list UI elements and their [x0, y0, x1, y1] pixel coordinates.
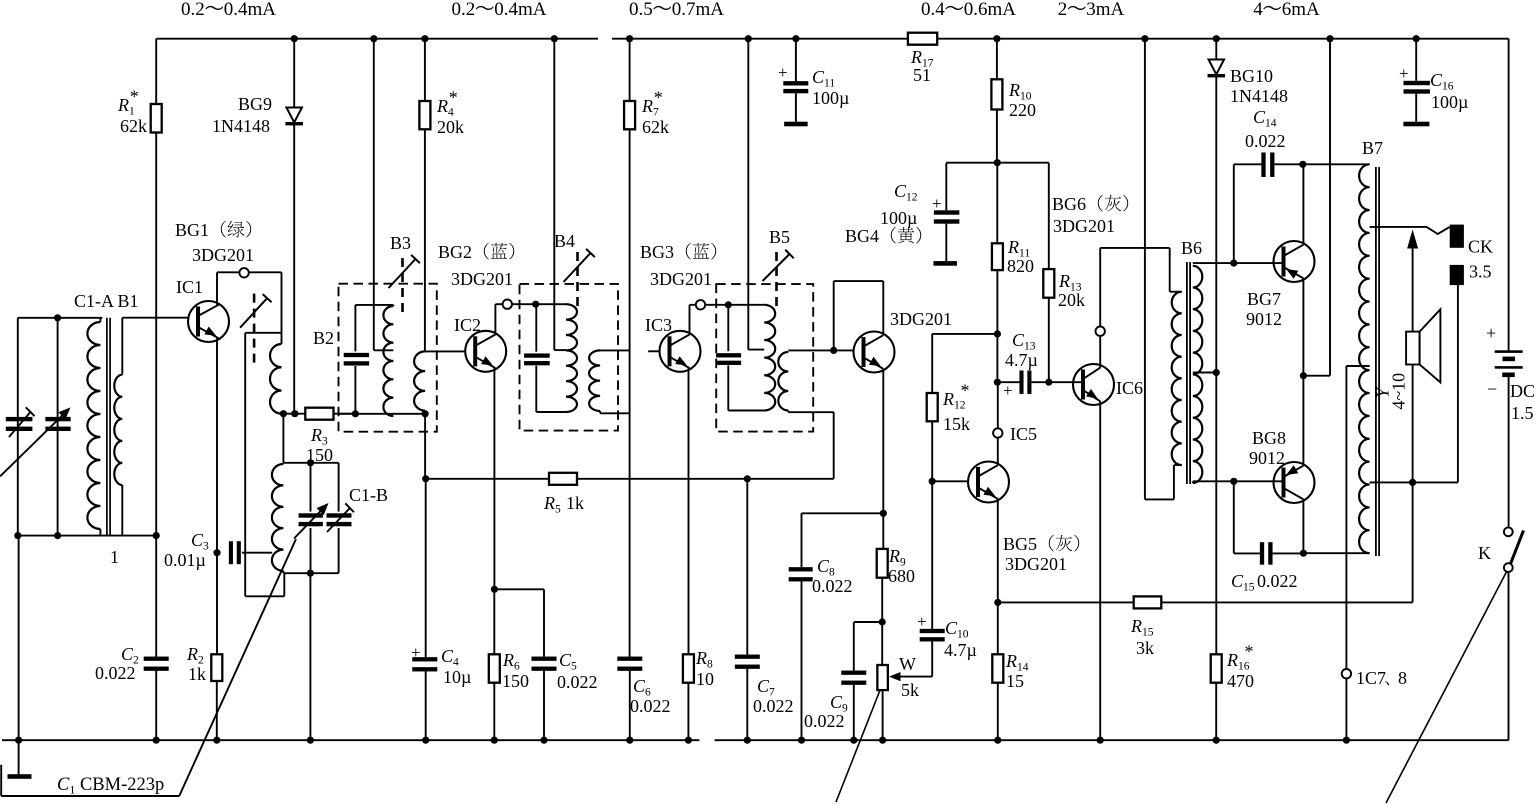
node R10/C12/R13	[994, 159, 1001, 166]
wire B3 tank bottom	[339, 413, 426, 415]
resistor R5 1k	[549, 473, 577, 485]
svg-text:IC3: IC3	[645, 315, 672, 335]
wire BG7 collector riser	[1302, 164, 1304, 244]
svg-text:0.6mA: 0.6mA	[964, 0, 1017, 20]
resistor R4 20k	[424, 39, 426, 101]
potentiometer W 5k	[881, 622, 883, 665]
svg-text:680: 680	[888, 566, 915, 586]
svg-text:10µ: 10µ	[443, 667, 471, 687]
resistor R12 15k	[931, 334, 933, 393]
resistor R2 1k	[216, 553, 218, 655]
svg-text:4.7µ: 4.7µ	[1005, 350, 1038, 370]
node C13 left	[994, 379, 1001, 386]
svg-text:3k: 3k	[1136, 638, 1154, 658]
speaker Y 4~10	[1406, 332, 1420, 365]
resistor R3 150	[305, 408, 333, 420]
transformer B4 secondary coil	[589, 350, 600, 411]
resistor R11 820	[996, 163, 998, 244]
B5 tank capacitor	[727, 305, 729, 351]
wire switch to ground rail	[1508, 572, 1510, 740]
node antenna top junction	[54, 314, 61, 321]
ring IC3 measuring point	[696, 300, 705, 309]
svg-text:0.022: 0.022	[804, 711, 845, 731]
svg-text:8: 8	[1398, 668, 1407, 688]
node R11/R12	[994, 330, 1001, 337]
node BG5 base	[929, 478, 936, 485]
trimmer core arrow B5	[775, 252, 778, 312]
svg-text:B2: B2	[313, 328, 334, 348]
svg-text:IC1: IC1	[176, 277, 203, 297]
svg-text:IC2: IC2	[454, 315, 481, 335]
ring 1C7,8 measuring point	[1342, 669, 1351, 678]
svg-text:IC5: IC5	[1010, 424, 1037, 444]
wire BG2 collector riser	[494, 304, 496, 334]
svg-text:0.022: 0.022	[630, 696, 671, 716]
svg-text:3DG201: 3DG201	[192, 245, 254, 265]
svg-text:1N4148: 1N4148	[212, 116, 270, 136]
resistor R13 20k	[997, 162, 1049, 164]
svg-text:2: 2	[1058, 0, 1068, 20]
ring IC1 measuring point	[239, 268, 248, 277]
B3 tank capacitor	[354, 305, 356, 352]
capacitor C10 4.7u	[931, 481, 933, 629]
wire BG4 emitter	[882, 369, 884, 514]
transistor BG4 3DG201 detector	[854, 332, 895, 373]
svg-text:20k: 20k	[1058, 290, 1085, 310]
svg-text:4~10: 4~10	[1389, 373, 1409, 410]
svg-text:0.01µ: 0.01µ	[164, 550, 206, 570]
oscillator coil B2 secondary	[282, 414, 284, 463]
wire ground stub left	[18, 536, 20, 741]
svg-text:DC: DC	[1510, 381, 1535, 401]
transformer B6 core	[1186, 262, 1188, 484]
svg-text:B3: B3	[390, 233, 411, 253]
node BG5 emitter junction	[994, 599, 1001, 606]
capacitor C11 100u electrolytic	[795, 39, 797, 81]
node antenna bottom left	[14, 532, 21, 539]
variable capacitor C1-B left unit	[310, 463, 312, 512]
wire emitters to supply	[1303, 375, 1330, 377]
svg-text:BG9: BG9	[238, 94, 272, 114]
wire bottom ground rail	[2, 739, 699, 741]
wire BG5 emitter	[997, 499, 999, 603]
transistor BG8 9012	[1274, 462, 1315, 503]
wire BG3 collector riser	[689, 305, 691, 335]
wire B7 tap to IC7-8 ring	[1346, 365, 1369, 367]
node C8 / R9	[880, 510, 887, 517]
svg-text:15: 15	[1006, 671, 1024, 691]
svg-text:+: +	[1003, 381, 1013, 400]
svg-text:0.022: 0.022	[753, 696, 794, 716]
node BG8 collector / C15	[1300, 550, 1307, 557]
transformer B1 core	[106, 318, 108, 536]
ground symbol bottom-left	[18, 740, 20, 774]
svg-text:BG7: BG7	[1247, 289, 1281, 309]
svg-text:−: −	[1487, 379, 1497, 399]
wire C1-A right unit vertical	[57, 318, 59, 536]
svg-text:BG8: BG8	[1252, 428, 1286, 448]
capacitor C12 100u electrolytic	[946, 162, 997, 164]
svg-text:100µ: 100µ	[812, 88, 849, 108]
node B3 secondary bottom	[422, 410, 429, 417]
svg-text:1.5: 1.5	[1511, 403, 1534, 423]
IF transformer B4 dashed box	[520, 284, 619, 431]
trimmer core arrow B4	[576, 252, 579, 312]
wire BG6 emitter to ground	[1099, 401, 1101, 740]
node BG4 base	[830, 347, 837, 354]
transistor BG5 (IC5) 3DG201	[932, 480, 968, 482]
capacitor C13 4.7u coupling	[997, 381, 1019, 383]
svg-text:4.7µ: 4.7µ	[944, 640, 977, 660]
transformer B6 primary coil	[1169, 248, 1171, 292]
wire B3 supply tap	[373, 39, 375, 351]
wire B7 tap to jack CK with break notch	[1370, 227, 1450, 234]
resistor R10 220	[996, 39, 998, 80]
svg-text:+: +	[932, 194, 942, 213]
IF transformer B3 dashed box	[339, 284, 437, 432]
pointer line to C1-A	[0, 412, 66, 477]
transformer B3 secondary coil	[414, 351, 425, 410]
node C9 branch	[879, 618, 886, 625]
svg-text:BG1: BG1	[175, 220, 209, 240]
oscillator B2 trimmer core arrow	[253, 294, 256, 365]
svg-text:B6: B6	[1181, 238, 1202, 258]
battery DC 1.5V	[1508, 39, 1510, 352]
node BG2 emitter R6/C5	[491, 586, 498, 593]
wire osc shield loop	[245, 332, 281, 334]
svg-text:3.5: 3.5	[1469, 262, 1492, 282]
transistor BG7 9012	[1274, 241, 1315, 282]
transistor BG3 (IC3) 3DG201	[648, 350, 659, 352]
svg-text:0.4mA: 0.4mA	[224, 0, 277, 20]
wire AGC line with R5	[424, 414, 426, 479]
svg-text:9012: 9012	[1249, 448, 1285, 468]
resistor R9 680	[882, 513, 884, 549]
svg-text:W: W	[899, 654, 916, 674]
capacitor C14 0.022	[1233, 164, 1235, 263]
svg-text:1N4148: 1N4148	[1230, 86, 1288, 106]
svg-text:0.2: 0.2	[181, 0, 205, 20]
wire BG8 emitter riser	[1302, 376, 1304, 466]
node antenna bottom right	[153, 532, 160, 539]
wire B6 center tap	[1193, 372, 1217, 374]
capacitor C6 0.022	[617, 657, 642, 661]
wire B6 primary bottom return	[1174, 464, 1182, 466]
pointer line K ganged	[1386, 571, 1507, 803]
wire B5 secondary bottom to AGC	[787, 411, 789, 413]
pointer arrow into C1-B	[294, 507, 325, 539]
switch K	[1504, 527, 1513, 536]
wire B5 supply tap	[747, 39, 749, 350]
svg-text:BG4: BG4	[845, 226, 879, 246]
capacitor C9 0.022	[854, 621, 882, 623]
pointer line W ganged	[836, 691, 880, 803]
variable capacitor C1-B right unit	[311, 462, 339, 464]
svg-text:3DG201: 3DG201	[1053, 216, 1115, 236]
wire speaker node to feedback	[1412, 482, 1414, 602]
svg-text:1k: 1k	[188, 664, 206, 684]
node osc tank bottom	[307, 570, 314, 577]
svg-text:0.022: 0.022	[1257, 571, 1298, 591]
transformer B4 primary coil	[566, 304, 577, 412]
node emitters junction	[1300, 372, 1307, 379]
node osc tank top	[307, 459, 314, 466]
svg-text:150: 150	[502, 671, 529, 691]
svg-text:B5: B5	[769, 227, 790, 247]
IF transformer B5 dashed box	[716, 284, 813, 432]
svg-text:100µ: 100µ	[1431, 92, 1468, 112]
svg-text:0.5: 0.5	[629, 0, 653, 20]
svg-text:B7: B7	[1362, 138, 1383, 158]
svg-text:3DG201: 3DG201	[890, 309, 952, 329]
svg-text:IC6: IC6	[1116, 378, 1143, 398]
variable capacitor C1-A right unit with arrow	[45, 417, 70, 421]
svg-text:6mA: 6mA	[1282, 0, 1320, 20]
capacitor C4 10u	[425, 479, 427, 657]
svg-text:BG3: BG3	[640, 242, 674, 262]
svg-text:3mA: 3mA	[1086, 0, 1124, 20]
resistor R15 3k	[1134, 596, 1162, 608]
diode BG10 1N4148	[1215, 39, 1217, 60]
svg-text:+: +	[778, 63, 788, 82]
jack CK 3.5 contacts	[1450, 225, 1464, 248]
capacitor C2 0.022	[155, 536, 157, 657]
wire B5 secondary top to BG4 base	[788, 349, 852, 351]
wire B3 tank top	[355, 304, 393, 306]
svg-text:1C7: 1C7	[1356, 668, 1386, 688]
capacitor C7 0.022	[746, 479, 748, 655]
wire BG8 collector to B7 bottom	[1303, 552, 1369, 554]
wire BG1 collector riser	[216, 272, 218, 305]
svg-text:BG10: BG10	[1230, 66, 1273, 86]
node R13 bottom	[1045, 379, 1052, 386]
svg-text:BG2: BG2	[438, 242, 472, 262]
svg-text:0.022: 0.022	[557, 672, 598, 692]
svg-text:4: 4	[1253, 0, 1263, 20]
wire B4 supply tap	[553, 39, 555, 350]
wire BG7 emitter	[1302, 278, 1304, 375]
svg-text:1: 1	[110, 547, 119, 567]
ring IC2 measuring point	[503, 300, 512, 309]
transistor BG2 (IC2) 3DG201	[425, 350, 465, 352]
node B3 cap bottom	[352, 410, 359, 417]
oscillator coil B2 primary	[281, 272, 283, 344]
node BG8 base / C15	[1230, 478, 1237, 485]
ring IC6 measuring point	[1096, 327, 1105, 336]
node BG9 cathode junction	[291, 410, 298, 417]
resistor R14 15	[997, 602, 999, 654]
resistor R1 62k	[155, 39, 157, 104]
wire BG2 emitter	[493, 368, 495, 589]
resistor R7 62k	[629, 39, 631, 101]
ring IC5 measuring point	[993, 428, 1002, 437]
svg-text:0.4: 0.4	[921, 0, 945, 20]
wire antenna bottom	[18, 535, 156, 537]
resistor R6 150	[489, 654, 500, 682]
capacitor C5 0.022	[494, 588, 544, 590]
svg-text:10: 10	[696, 669, 714, 689]
svg-text:820: 820	[1007, 256, 1034, 276]
transformer B7 winding	[1359, 164, 1370, 553]
svg-text:100µ: 100µ	[880, 208, 917, 228]
svg-text:62k: 62k	[642, 117, 669, 137]
wire antenna top	[18, 317, 103, 319]
svg-text:51: 51	[913, 65, 931, 85]
wire B6 secondary bottom to BG8 base	[1192, 481, 1194, 483]
wire BG4 collector loop to base	[882, 281, 884, 335]
B4 tank capacitor	[535, 304, 537, 352]
transformer B1 primary coil	[87, 322, 100, 529]
svg-text:0.022: 0.022	[1245, 131, 1286, 151]
transformer B5 secondary coil	[778, 352, 788, 411]
svg-text:1k: 1k	[566, 493, 584, 513]
svg-text:20k: 20k	[437, 117, 464, 137]
wire B4 secondary top to R7 line	[600, 349, 630, 351]
node speaker junction	[1409, 479, 1416, 486]
wire jack sleeve down	[1457, 285, 1459, 482]
wire B4 secondary bottom	[599, 411, 601, 413]
svg-text:9012: 9012	[1246, 309, 1282, 329]
transformer B7 core	[1375, 167, 1377, 556]
svg-text:B4: B4	[554, 231, 575, 251]
transformer B5 primary coil	[764, 305, 775, 411]
svg-text:62k: 62k	[120, 116, 147, 136]
svg-text:C1-B: C1-B	[349, 485, 388, 505]
transformer B6 secondary coil	[1193, 266, 1203, 483]
svg-text:+: +	[917, 612, 927, 631]
svg-text:0.022: 0.022	[812, 576, 853, 596]
node osc feedback	[280, 410, 287, 417]
wire B6 secondary top to BG7 base	[1193, 262, 1283, 264]
capacitor C16 100u electrolytic	[1415, 39, 1417, 81]
wire BG8 collector	[1302, 499, 1304, 553]
wire BG6 collector to B6	[1100, 247, 1170, 249]
svg-text:15k: 15k	[943, 414, 970, 434]
wire BG6 collector riser	[1099, 248, 1101, 368]
wire BG3 emitter / resistor R8 10	[688, 368, 690, 654]
diode BG9 1N4148	[293, 39, 295, 108]
wire BG1 emitter	[216, 338, 218, 553]
node BG1 emitter / C3	[213, 549, 220, 556]
transformer B3 primary coil	[392, 305, 394, 306]
pointer line C1 to C1-B	[179, 539, 296, 796]
wire speaker bottom	[1412, 365, 1414, 483]
wire feedback line	[998, 601, 1134, 603]
transistor BG1 (IC1) 3DG201	[122, 317, 187, 319]
svg-text:3DG201: 3DG201	[650, 269, 712, 289]
wire top supply rail	[156, 38, 598, 40]
node AGC right / C7	[744, 475, 751, 482]
svg-text:3DG201: 3DG201	[1005, 554, 1067, 574]
transformer B1 secondary coil	[121, 318, 123, 375]
node BG7 base / C14	[1230, 260, 1237, 267]
node B6 center tap	[1213, 369, 1220, 376]
svg-text:0.022: 0.022	[95, 663, 136, 683]
transistor BG6 (IC6) 3DG201	[1073, 364, 1114, 405]
svg-text:470: 470	[1227, 671, 1254, 691]
capacitor C3 0.01u	[229, 541, 233, 564]
svg-text:K: K	[1478, 543, 1491, 563]
svg-text:+: +	[1486, 323, 1496, 343]
node B5 cap top	[725, 301, 732, 308]
caption border line	[0, 765, 2, 796]
wire osc tank to ground rail	[309, 573, 311, 740]
svg-text:CK: CK	[1468, 237, 1493, 257]
svg-text:0.2: 0.2	[452, 0, 476, 20]
node B4 cap top	[532, 301, 539, 308]
svg-text:BG6: BG6	[1052, 194, 1086, 214]
resistor R16 470	[1215, 373, 1217, 655]
svg-text:3DG201: 3DG201	[451, 269, 513, 289]
node AGC left	[422, 475, 429, 482]
svg-text:0.4mA: 0.4mA	[494, 0, 547, 20]
svg-text:+: +	[1399, 64, 1409, 83]
capacitor C15 0.022	[1233, 481, 1235, 553]
wire BG5 collector riser	[997, 382, 999, 465]
wire osc feedback to R3	[282, 413, 306, 415]
trimmer core arrow B3	[401, 258, 404, 318]
svg-text:C1-A B1: C1-A B1	[74, 291, 139, 311]
node antenna bottom mid	[54, 532, 61, 539]
wire antenna left vertical	[17, 318, 19, 536]
svg-text:220: 220	[1009, 100, 1036, 120]
svg-text:BG5: BG5	[1003, 534, 1037, 554]
wire C14 node to B7 top	[1303, 163, 1370, 165]
wire B7 speaker tap	[1370, 481, 1458, 483]
resistor R17 in rail	[908, 33, 937, 45]
svg-text:+: +	[411, 643, 421, 662]
svg-text:0.7mA: 0.7mA	[672, 0, 725, 20]
variable capacitor C1-A left unit	[6, 417, 33, 421]
svg-text:5k: 5k	[901, 680, 919, 700]
capacitor C8 0.022	[802, 512, 884, 514]
speaker arrow line	[1412, 248, 1414, 332]
node C14 right / BG7 collector	[1299, 161, 1306, 168]
